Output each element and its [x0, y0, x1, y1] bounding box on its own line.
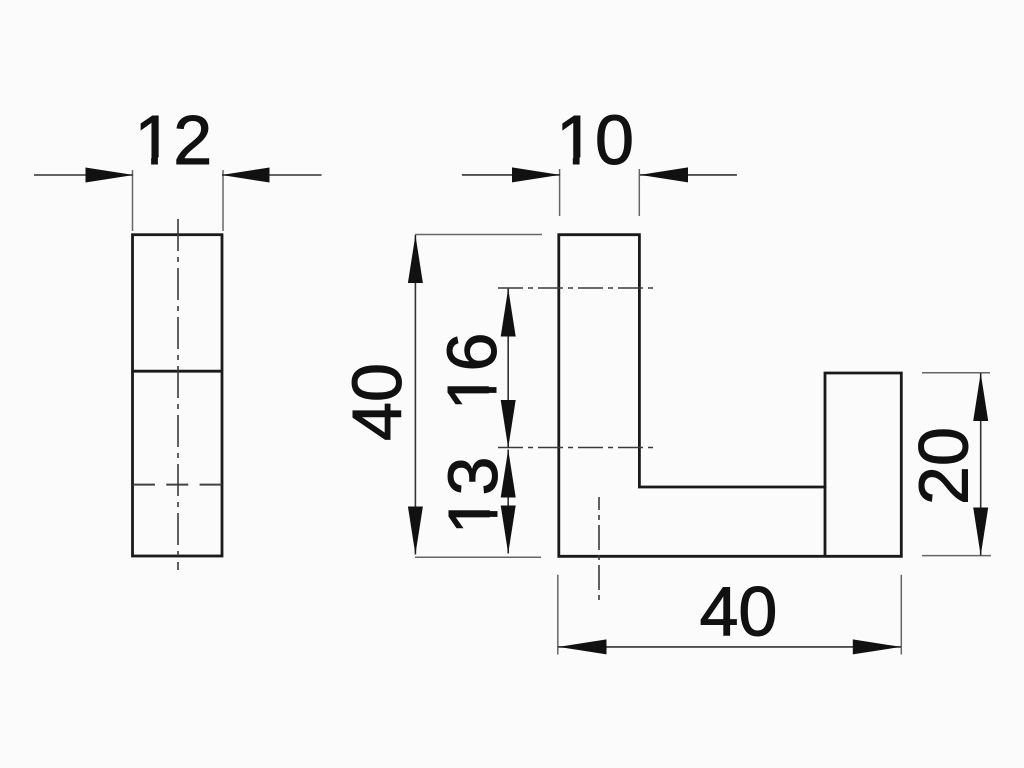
- dimension 10 extension lines: [560, 169, 640, 216]
- dimension 40 (vertical) extension lines: [415, 235, 542, 558]
- dimension 10 label digit-1 foot patches: [560, 157, 592, 166]
- svg-text:40: 40: [699, 573, 777, 651]
- dimension 40 (bottom) dimension line: [558, 646, 901, 648]
- dimension 12 arrowheads: [86, 168, 270, 183]
- dimension 13 arrowheads: [501, 450, 516, 554]
- dimension 20 dimension line: [980, 373, 982, 556]
- svg-text:10: 10: [556, 101, 634, 179]
- side view hidden edge (dashed): [133, 484, 222, 486]
- dimension 40 (vertical) dimension line: [414, 235, 416, 555]
- dimension 10 arrowheads: [512, 167, 688, 182]
- dimension 13 label digit-1 foot patches: [490, 498, 499, 530]
- dimension 12 extension lines: [133, 170, 224, 231]
- dimension 12 dimension line: [34, 174, 322, 176]
- dimension 16 arrowheads: [501, 289, 516, 449]
- front view lower horizontal centerline: [498, 447, 658, 449]
- dimension 13 dimension line: [507, 450, 509, 554]
- svg-text:12: 12: [134, 101, 212, 179]
- svg-text:40: 40: [338, 363, 416, 441]
- dimension 40 (bottom) extension lines: [558, 575, 902, 655]
- dimension 20 arrowheads: [973, 373, 988, 556]
- dimension 10 dimension line: [462, 174, 737, 176]
- front view upper horizontal centerline: [498, 287, 658, 289]
- dimension 16 label digit-1 foot patches: [489, 374, 498, 406]
- svg-text:13: 13: [434, 457, 512, 535]
- dimension 12 label digit-1 foot patches: [139, 157, 171, 166]
- front view vertical centerline: [598, 497, 600, 601]
- svg-text:16: 16: [433, 333, 511, 411]
- side view vertical centerline: [177, 219, 179, 570]
- side view outline rectangle: [133, 235, 223, 556]
- side view mid edge line: [133, 370, 223, 373]
- front view outline (L-profile): [559, 235, 902, 557]
- dimension 40 (vertical) arrowheads: [408, 235, 423, 555]
- dimension 16 dimension line: [507, 289, 509, 449]
- front view inner vertical edge: [824, 487, 827, 556]
- svg-text:20: 20: [905, 427, 983, 505]
- dimension 40 (bottom) arrowheads: [559, 639, 901, 654]
- dimension 20 extension lines: [922, 373, 991, 556]
